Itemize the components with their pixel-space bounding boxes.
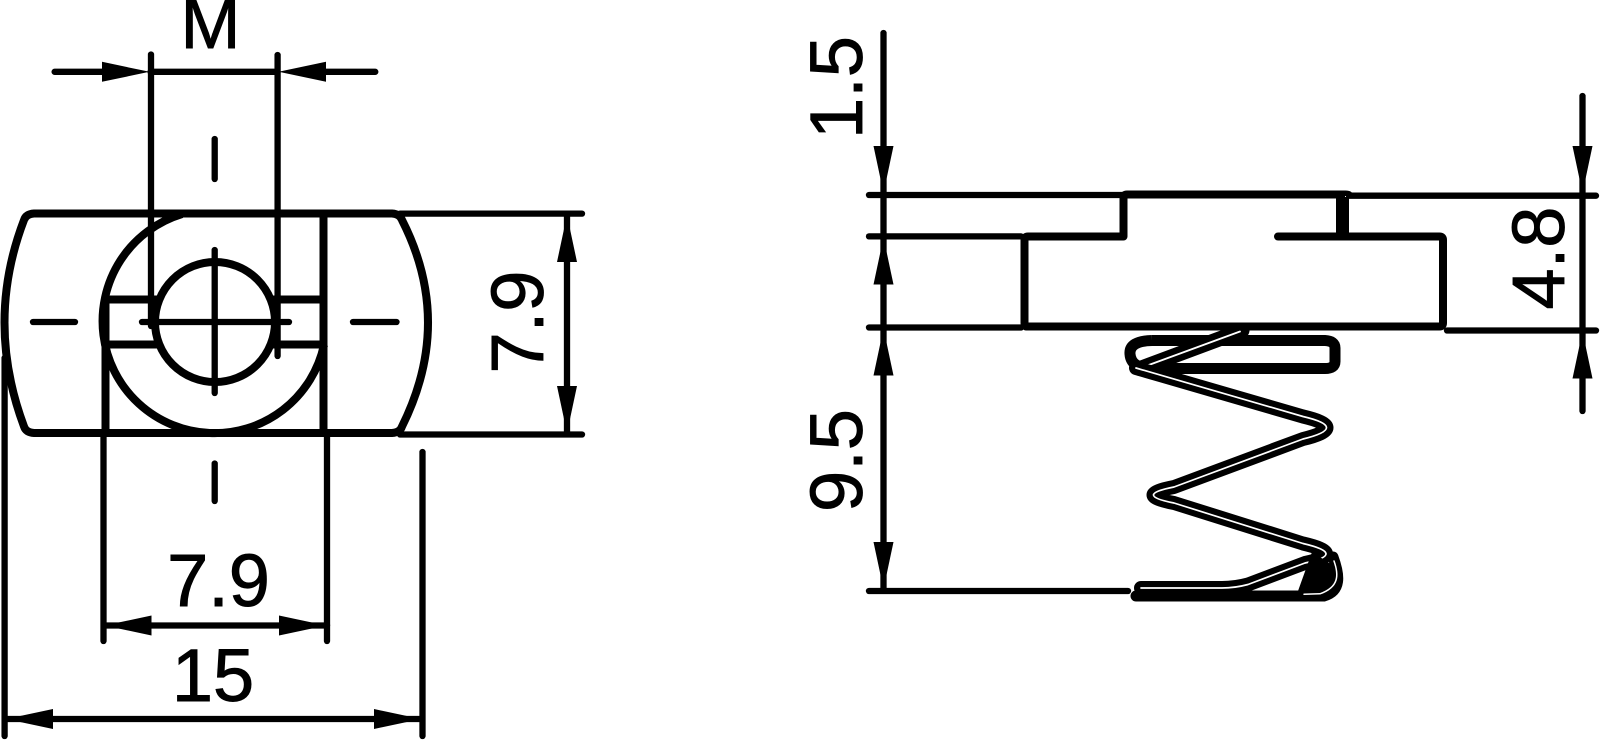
dimension 7.9 horizontal: right arrowhead	[279, 616, 326, 636]
spring wire diagonal (behind body)	[1140, 331, 1242, 369]
top plate right edge (thick doubled line)	[1336, 197, 1349, 234]
dimension 7.9 horizontal: left arrowhead	[105, 616, 152, 636]
nut body outline (barrel shape)	[5, 214, 429, 434]
svg-text:9.5: 9.5	[795, 409, 878, 512]
left vertical dimension line (1.5 / 9.5)	[880, 33, 886, 590]
white core of bottom end bar right	[1304, 561, 1337, 594]
extension line y=236 left	[869, 233, 1021, 239]
extension line y=327.5 left	[869, 324, 1021, 330]
svg-text:1.5: 1.5	[795, 36, 878, 139]
right vertical dimension line (4.8)	[1579, 96, 1585, 411]
inner slot edge upper line	[105, 296, 324, 304]
vertical centerline	[212, 139, 218, 501]
dimension 7.9 vertical: top arrowhead	[557, 215, 577, 262]
arrowhead down at y=192 right	[1573, 146, 1593, 193]
extension line y=195 left	[869, 192, 1124, 198]
dimension M: right extension line	[274, 55, 280, 356]
spring top coil loop	[1130, 341, 1335, 369]
dimension M: left extension line	[148, 55, 154, 327]
dimension 15: left extension line	[1, 358, 7, 736]
spring bottom right filler	[1298, 552, 1337, 593]
dimension 7.9 vertical: dimension line	[564, 214, 570, 434]
white core of diagonal	[1142, 332, 1240, 368]
svg-text:15: 15	[172, 634, 254, 717]
svg-text:M: M	[181, 0, 241, 64]
inner slot left vertical edge	[102, 297, 110, 433]
svg-text:7.9: 7.9	[167, 539, 270, 622]
extension line y=330.5 right	[1447, 327, 1596, 333]
dimension 15: right extension line	[419, 452, 425, 736]
dimension 15: left arrowhead	[6, 709, 53, 729]
dimension 15: right arrowhead	[374, 709, 421, 729]
nut body top edge right segment with round end	[1026, 237, 1443, 327]
top plate left edge	[1124, 195, 1350, 237]
dimension 7.9 vertical: bottom extension line	[400, 431, 582, 437]
dimension 7.9 horizontal: dimension line	[104, 622, 327, 628]
dimension 15: dimension line	[7, 716, 420, 722]
dimension 7.9 horizontal: right extension line	[324, 436, 330, 641]
horizontal centerline	[33, 319, 397, 325]
nut body top edge left segment	[1025, 237, 1124, 327]
arrowhead up at y=328	[874, 329, 894, 376]
spring zigzag coils	[1136, 368, 1327, 588]
spring bottom end bar	[1136, 557, 1338, 596]
arrowhead up at y=331 right	[1573, 332, 1593, 379]
white core of zigzag	[1136, 368, 1327, 588]
extension line y=591 (spring bottom)	[869, 588, 1128, 594]
dimension M: left arrowhead	[102, 62, 150, 82]
threaded hole circle	[155, 262, 275, 382]
arrowhead up at y=236	[874, 238, 894, 285]
dimension M: right arrowhead	[279, 62, 326, 82]
dimension 7.9 vertical: bottom arrowhead	[557, 386, 577, 433]
dimension M: dimension line with outside arrows	[55, 69, 376, 75]
spring plate arc (large arc around hole)	[103, 214, 324, 433]
dimension 7.9 horizontal: left extension line	[100, 436, 106, 641]
svg-text:4.8: 4.8	[1497, 207, 1580, 310]
svg-text:7.9: 7.9	[476, 271, 559, 374]
arrowhead down at y=589	[874, 542, 894, 589]
inner slot right vertical edge	[320, 214, 328, 433]
extension line y=195 right	[1349, 193, 1596, 199]
arrowhead down at y=192	[874, 146, 894, 193]
dimension 7.9 vertical: top extension line	[400, 210, 582, 216]
inner slot edge lower line	[105, 341, 324, 349]
